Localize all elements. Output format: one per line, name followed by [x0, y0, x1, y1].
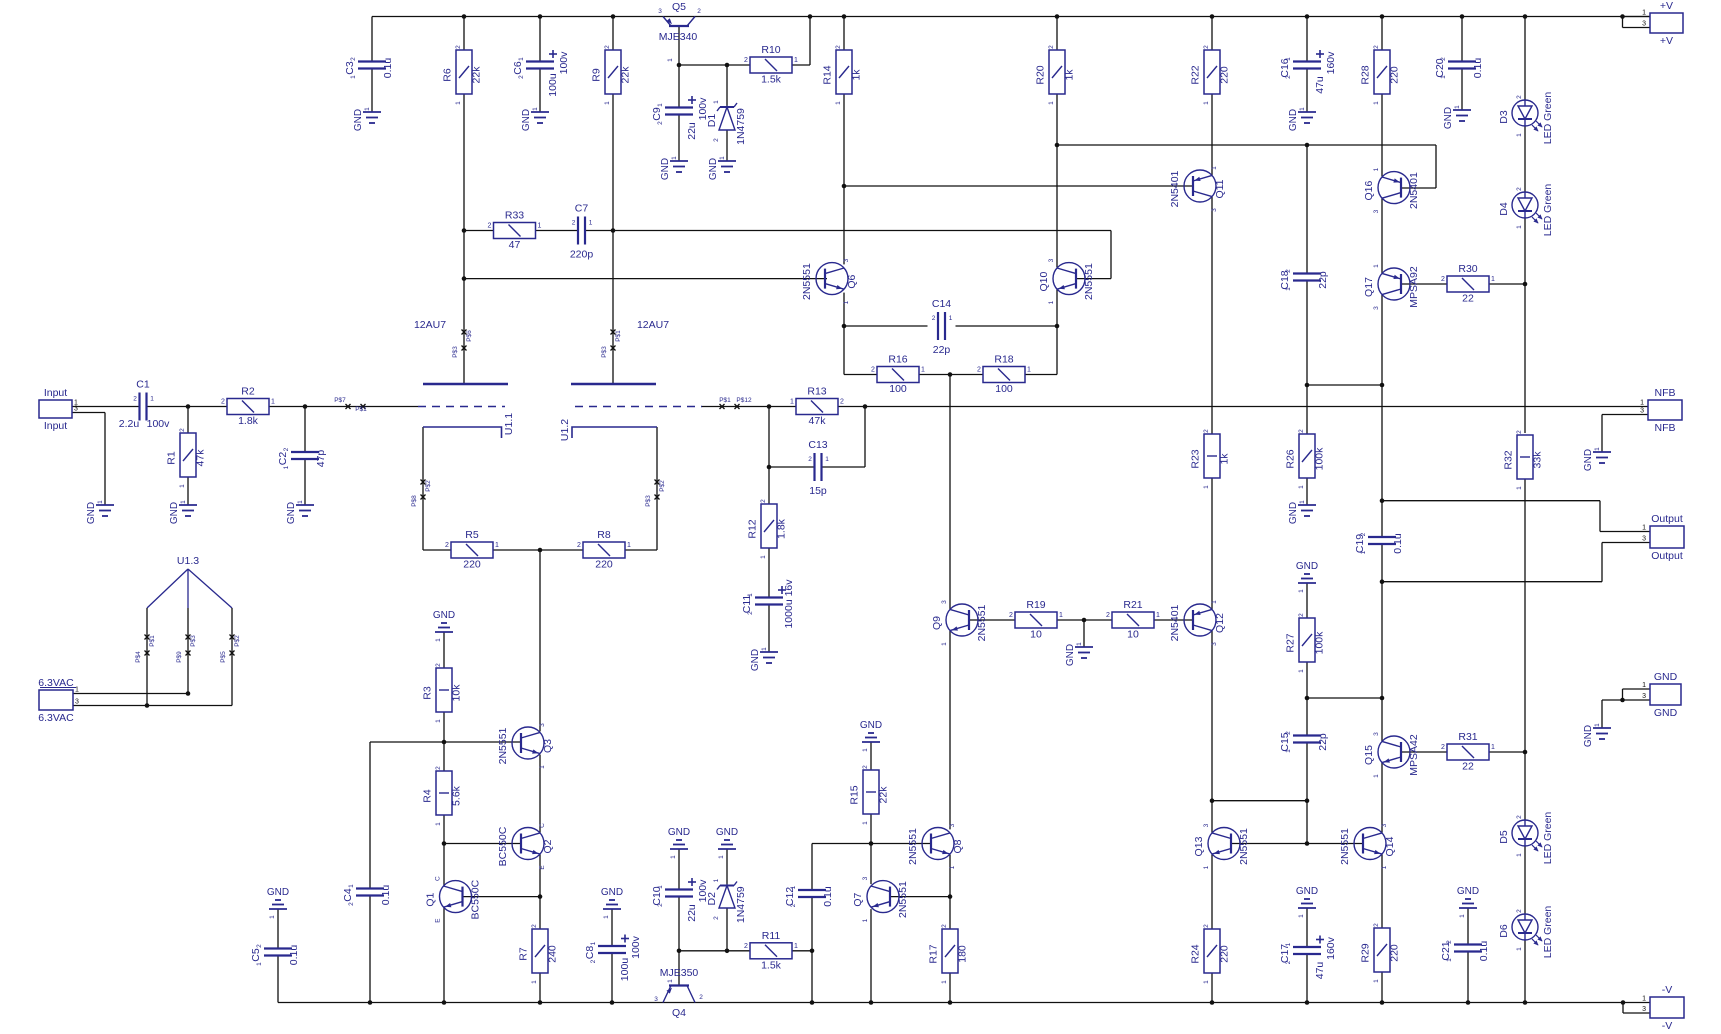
- svg-text:2: 2: [713, 138, 720, 142]
- svg-text:22u: 22u: [686, 122, 698, 140]
- vacuum tube U1.1 cathode: [423, 427, 502, 438]
- transistor Q7: [852, 876, 909, 922]
- svg-text:R24: R24: [1190, 944, 1202, 963]
- svg-text:1: 1: [1203, 101, 1210, 105]
- svg-text:Q14: Q14: [1384, 836, 1396, 856]
- junction: [462, 228, 467, 233]
- wire: [146, 608, 148, 706]
- wire: [1489, 283, 1525, 285]
- svg-text:3: 3: [1211, 208, 1218, 212]
- ground: [267, 887, 289, 919]
- wire: [304, 407, 306, 453]
- svg-text:GND: GND: [1443, 107, 1454, 129]
- svg-text:22: 22: [1462, 293, 1474, 305]
- svg-text:1: 1: [1642, 10, 1646, 17]
- wire: [463, 896, 541, 898]
- wire: [1056, 326, 1058, 375]
- wire: [1306, 145, 1308, 274]
- svg-text:R11: R11: [762, 930, 781, 942]
- wire: [1306, 281, 1308, 386]
- svg-text:1: 1: [589, 220, 593, 227]
- resistor R2: [221, 386, 275, 428]
- svg-text:C3: C3: [344, 61, 356, 75]
- resistor R18: [977, 354, 1031, 396]
- tube pin P$2 (U1.1 cathode): [421, 480, 426, 485]
- svg-text:R27: R27: [1285, 633, 1297, 652]
- svg-text:1: 1: [150, 396, 154, 403]
- svg-text:2: 2: [455, 45, 462, 49]
- svg-text:R20: R20: [1035, 65, 1047, 84]
- svg-text:GND: GND: [860, 720, 882, 731]
- junction: [1620, 14, 1625, 19]
- svg-text:1: 1: [921, 367, 925, 374]
- junction: [842, 14, 847, 19]
- svg-text:1: 1: [531, 980, 538, 984]
- wire: [1306, 801, 1308, 844]
- vacuum tube U1.1 grid (dashed): [418, 406, 505, 408]
- svg-text:C1: C1: [136, 379, 150, 391]
- svg-text:1: 1: [348, 884, 355, 888]
- svg-text:0.1u: 0.1u: [1478, 941, 1490, 962]
- junction: [442, 841, 447, 846]
- junction: [1305, 798, 1310, 803]
- svg-text:1: 1: [667, 58, 674, 62]
- wire: [1622, 17, 1624, 28]
- junction: [1380, 579, 1385, 584]
- zener diode D1: [706, 100, 747, 145]
- svg-text:C13: C13: [808, 439, 827, 451]
- wire: [1524, 17, 1526, 101]
- wire: [949, 855, 951, 897]
- svg-text:1: 1: [435, 638, 442, 642]
- wire: [864, 407, 866, 468]
- svg-text:1.5k: 1.5k: [761, 959, 782, 971]
- svg-text:3: 3: [1640, 408, 1644, 415]
- resistor R10: [744, 44, 798, 86]
- svg-text:2: 2: [932, 315, 936, 322]
- svg-text:2: 2: [1203, 45, 1210, 49]
- wire: [1382, 581, 1602, 583]
- wire: [769, 466, 815, 468]
- svg-text:1: 1: [657, 885, 664, 889]
- junction: [538, 14, 543, 19]
- wire: [1435, 145, 1437, 188]
- junction: [1466, 1000, 1471, 1005]
- svg-text:1.5k: 1.5k: [761, 74, 782, 86]
- svg-text:1: 1: [1298, 669, 1305, 673]
- svg-text:2: 2: [977, 367, 981, 374]
- svg-text:C5: C5: [250, 948, 262, 962]
- svg-text:2: 2: [1285, 269, 1292, 273]
- wire: [443, 742, 445, 771]
- svg-text:GND: GND: [660, 158, 671, 180]
- svg-text:1: 1: [180, 500, 187, 504]
- svg-text:1: 1: [1076, 642, 1083, 646]
- svg-text:2: 2: [1373, 45, 1380, 49]
- wire: [539, 589, 541, 731]
- junction: [869, 1000, 874, 1005]
- wire: [423, 549, 451, 551]
- svg-text:1: 1: [435, 719, 442, 723]
- svg-text:R21: R21: [1123, 599, 1142, 611]
- ground: [1583, 723, 1611, 747]
- wire: [369, 742, 371, 889]
- wire: [443, 908, 445, 1003]
- heater pins x147: [145, 635, 150, 640]
- svg-text:1k: 1k: [851, 69, 863, 81]
- svg-text:GND: GND: [86, 502, 97, 524]
- svg-text:GND: GND: [267, 887, 289, 898]
- junction: [842, 184, 847, 189]
- capacitor C13: [808, 439, 829, 497]
- wire C12 top to Q8 base: [871, 843, 931, 845]
- wire: [1057, 619, 1084, 621]
- wire: [1489, 751, 1525, 753]
- svg-text:1: 1: [1299, 500, 1306, 504]
- svg-text:1k: 1k: [1219, 453, 1231, 465]
- svg-text:1: 1: [1059, 612, 1063, 619]
- junction: [1305, 1000, 1310, 1005]
- capacitor C17: [1279, 936, 1337, 980]
- wire: [1623, 1012, 1650, 1014]
- svg-text:Q8: Q8: [952, 839, 964, 853]
- svg-text:1: 1: [539, 765, 546, 769]
- ground: [1065, 642, 1093, 666]
- svg-text:2: 2: [1048, 45, 1055, 49]
- svg-text:Output: Output: [1651, 550, 1683, 562]
- svg-text:1: 1: [719, 156, 726, 160]
- wire: [1381, 385, 1383, 501]
- svg-text:P$1: P$1: [719, 397, 731, 404]
- wire: [1083, 620, 1085, 647]
- LED D3: [1498, 92, 1554, 145]
- svg-text:12AU7: 12AU7: [414, 319, 446, 331]
- svg-text:1: 1: [627, 542, 631, 549]
- heater pins x188: [186, 635, 191, 640]
- wire: [1381, 501, 1383, 537]
- LED D6: [1498, 906, 1554, 959]
- transistor Q4: [654, 967, 703, 1019]
- resistor R17: [928, 924, 969, 984]
- net -V bottom rail: [278, 1002, 1650, 1004]
- svg-text:1: 1: [667, 979, 674, 983]
- wire: [678, 26, 680, 65]
- svg-text:GND: GND: [750, 649, 761, 671]
- svg-text:22p: 22p: [1317, 271, 1329, 289]
- connector Output: [1642, 513, 1684, 562]
- junction: [948, 372, 953, 377]
- svg-text:2: 2: [1373, 923, 1380, 927]
- svg-text:1: 1: [1048, 300, 1055, 304]
- vacuum tube U1.2 grid (dashed): [575, 406, 702, 408]
- svg-text:R26: R26: [1285, 449, 1297, 468]
- transistor Q3: [497, 723, 554, 769]
- junction: [1082, 618, 1087, 623]
- svg-text:1: 1: [1285, 287, 1292, 291]
- svg-text:1: 1: [297, 500, 304, 504]
- wire: [493, 549, 583, 551]
- svg-text:2: 2: [1298, 429, 1305, 433]
- svg-text:1: 1: [760, 555, 767, 559]
- wire: [844, 374, 877, 376]
- svg-text:GND: GND: [1296, 886, 1318, 897]
- wire heater left diag: [147, 569, 188, 608]
- wire: [1230, 843, 1363, 845]
- svg-text:2: 2: [1298, 613, 1305, 617]
- junction: [442, 740, 447, 745]
- svg-text:2: 2: [1203, 429, 1210, 433]
- svg-text:3: 3: [1642, 1006, 1646, 1013]
- svg-text:2: 2: [840, 399, 844, 406]
- wire: [585, 230, 613, 232]
- svg-text:Q6: Q6: [846, 274, 858, 288]
- svg-text:1: 1: [532, 107, 539, 111]
- svg-text:C4: C4: [342, 888, 354, 902]
- wire: [1599, 501, 1601, 532]
- svg-text:1: 1: [1285, 942, 1292, 946]
- wire: [443, 813, 445, 844]
- wire: [1306, 698, 1308, 736]
- svg-text:1: 1: [761, 647, 768, 651]
- svg-text:LED Green: LED Green: [1542, 906, 1554, 959]
- svg-text:Input: Input: [44, 387, 67, 399]
- transistor Q14: [1339, 823, 1396, 869]
- wire: [1524, 126, 1526, 192]
- svg-text:LED Green: LED Green: [1542, 92, 1554, 145]
- junction: [725, 63, 730, 68]
- wire: [1623, 27, 1651, 29]
- wire: [949, 631, 951, 830]
- svg-text:GND: GND: [601, 887, 623, 898]
- svg-text:2N5401: 2N5401: [1408, 172, 1420, 209]
- wire: [1623, 688, 1651, 690]
- svg-text:2N5551: 2N5551: [1339, 828, 1351, 865]
- svg-text:0.1u: 0.1u: [288, 945, 300, 966]
- svg-text:2: 2: [435, 766, 442, 770]
- vacuum tube U1.1 plate: [423, 383, 508, 385]
- svg-text:C8: C8: [584, 946, 596, 960]
- wire: [463, 279, 465, 384]
- wire: [768, 467, 770, 504]
- svg-text:GND: GND: [668, 827, 690, 838]
- svg-text:220: 220: [1219, 66, 1231, 84]
- svg-text:22k: 22k: [620, 66, 632, 84]
- wire: [1381, 295, 1383, 385]
- junction: [725, 949, 730, 954]
- wire: [870, 812, 872, 844]
- svg-text:Q9: Q9: [931, 616, 943, 630]
- svg-text:10: 10: [1127, 629, 1139, 641]
- wire: [812, 843, 871, 845]
- junction: [145, 703, 150, 708]
- wire R20 to Q16 base rail: [1057, 144, 1436, 146]
- svg-text:1: 1: [435, 822, 442, 826]
- svg-text:2: 2: [1441, 744, 1445, 751]
- wire: [147, 406, 228, 408]
- junction: [810, 949, 815, 954]
- svg-text:Q2: Q2: [542, 839, 554, 853]
- transistor Q5: [658, 1, 701, 62]
- svg-text:1: 1: [657, 103, 664, 107]
- svg-text:1: 1: [1298, 914, 1305, 918]
- svg-text:Q11: Q11: [1214, 179, 1226, 198]
- svg-text:3: 3: [539, 723, 546, 727]
- ground: [860, 720, 882, 752]
- wire: [464, 230, 493, 232]
- svg-text:2: 2: [1285, 731, 1292, 735]
- svg-text:0.1u: 0.1u: [1472, 58, 1484, 79]
- svg-text:1: 1: [1285, 749, 1292, 753]
- capacitor C16: [1279, 50, 1337, 94]
- svg-text:1k: 1k: [1064, 69, 1076, 81]
- junction: [948, 1000, 953, 1005]
- wire: [1461, 17, 1463, 62]
- wire: [1211, 17, 1213, 51]
- svg-text:Q7: Q7: [852, 892, 864, 906]
- svg-text:2: 2: [790, 903, 797, 907]
- tube pin P$8: [421, 495, 426, 500]
- wire: [1056, 289, 1058, 326]
- transistor Q15: [1363, 732, 1420, 778]
- svg-text:LED Green: LED Green: [1542, 184, 1554, 237]
- svg-text:47p: 47p: [315, 450, 327, 468]
- svg-text:GND: GND: [353, 109, 364, 131]
- svg-text:2N5551: 2N5551: [897, 881, 909, 918]
- junction: [538, 548, 543, 553]
- wire: [726, 130, 728, 161]
- wire: [1306, 954, 1308, 1003]
- svg-text:1: 1: [97, 500, 104, 504]
- svg-text:2: 2: [747, 611, 754, 615]
- svg-text:47u: 47u: [1314, 76, 1326, 94]
- wire: [656, 427, 658, 550]
- wire: [843, 186, 845, 264]
- svg-text:P$5: P$5: [220, 651, 227, 663]
- svg-text:2: 2: [1360, 532, 1367, 536]
- svg-text:2N5551: 2N5551: [976, 604, 988, 641]
- wire: [1307, 697, 1382, 699]
- svg-text:Q15: Q15: [1363, 745, 1375, 765]
- wire: [1601, 700, 1603, 728]
- ground: [286, 500, 314, 524]
- ground: [433, 610, 455, 642]
- svg-text:1: 1: [1373, 979, 1380, 983]
- wire: [539, 69, 541, 113]
- svg-text:1: 1: [1211, 600, 1218, 604]
- svg-text:Q1: Q1: [425, 892, 437, 906]
- svg-text:3: 3: [1642, 536, 1646, 543]
- wire: [1306, 17, 1308, 62]
- resistor R30: [1441, 263, 1495, 305]
- svg-text:C6: C6: [512, 61, 524, 75]
- svg-text:1: 1: [271, 399, 275, 406]
- junction: [767, 465, 772, 470]
- svg-text:+V: +V: [1660, 0, 1673, 12]
- wire: [1211, 854, 1213, 929]
- transistor Q8: [907, 823, 964, 869]
- wire: [539, 755, 541, 833]
- wire: [187, 608, 189, 694]
- ground: [716, 827, 738, 859]
- svg-text:1: 1: [1048, 101, 1055, 105]
- wire: [1467, 952, 1469, 1003]
- svg-text:1: 1: [941, 980, 948, 984]
- svg-text:R33: R33: [505, 210, 524, 222]
- junction: [1210, 14, 1215, 19]
- svg-text:2: 2: [1441, 276, 1445, 283]
- wire: [809, 17, 811, 66]
- svg-text:220: 220: [1219, 945, 1231, 963]
- svg-text:3: 3: [1048, 258, 1055, 262]
- heater pins x232: [230, 635, 235, 640]
- svg-text:2: 2: [256, 944, 263, 948]
- resistor R7: [518, 924, 559, 984]
- svg-text:NFB: NFB: [1655, 387, 1676, 399]
- wire: [612, 231, 614, 385]
- wire: [792, 950, 812, 952]
- connector -V: [1642, 984, 1684, 1032]
- junction: [1055, 324, 1060, 329]
- svg-text:2: 2: [835, 45, 842, 49]
- wire: [1622, 1003, 1624, 1014]
- svg-text:3: 3: [658, 8, 662, 15]
- junction: [1523, 282, 1528, 287]
- resistor R6: [442, 45, 483, 105]
- svg-text:1: 1: [1446, 958, 1453, 962]
- svg-text:1: 1: [1516, 225, 1523, 229]
- resistor R12: [747, 499, 788, 559]
- svg-text:1: 1: [713, 100, 720, 104]
- resistor R16: [871, 354, 925, 396]
- svg-text:1: 1: [1373, 774, 1380, 778]
- svg-text:GND: GND: [1288, 109, 1299, 131]
- wire: [678, 951, 680, 986]
- junction: [368, 1000, 373, 1005]
- svg-text:220: 220: [1389, 66, 1401, 84]
- svg-text:GND: GND: [708, 158, 719, 180]
- vacuum tube U1.2 plate: [571, 383, 656, 385]
- junction: [1305, 841, 1310, 846]
- tube pin P$3: [462, 346, 467, 351]
- svg-text:2: 2: [862, 765, 869, 769]
- wire: [1211, 971, 1213, 1003]
- transistor Q17: [1363, 264, 1420, 310]
- junction: [1305, 14, 1310, 19]
- transistor Q2: [497, 823, 554, 870]
- wire: [678, 65, 680, 108]
- svg-text:R15: R15: [849, 785, 861, 804]
- svg-text:2: 2: [697, 8, 701, 15]
- wire: [1524, 940, 1526, 1003]
- wire: [870, 844, 872, 885]
- svg-text:3: 3: [941, 600, 948, 604]
- svg-text:3: 3: [1373, 306, 1380, 310]
- wire: [1381, 198, 1383, 274]
- wire: [539, 854, 541, 897]
- wire: [611, 953, 613, 1003]
- svg-text:1: 1: [364, 107, 371, 111]
- junction: [1380, 696, 1385, 701]
- wire: [950, 374, 983, 376]
- svg-text:R12: R12: [747, 519, 759, 538]
- wire: [1461, 69, 1463, 111]
- svg-text:1: 1: [790, 885, 797, 889]
- svg-text:2N5401: 2N5401: [1169, 604, 1181, 641]
- svg-text:D3: D3: [1498, 110, 1510, 124]
- svg-text:3: 3: [1211, 642, 1218, 646]
- svg-text:1: 1: [713, 878, 720, 882]
- transistor Q13: [1193, 823, 1250, 869]
